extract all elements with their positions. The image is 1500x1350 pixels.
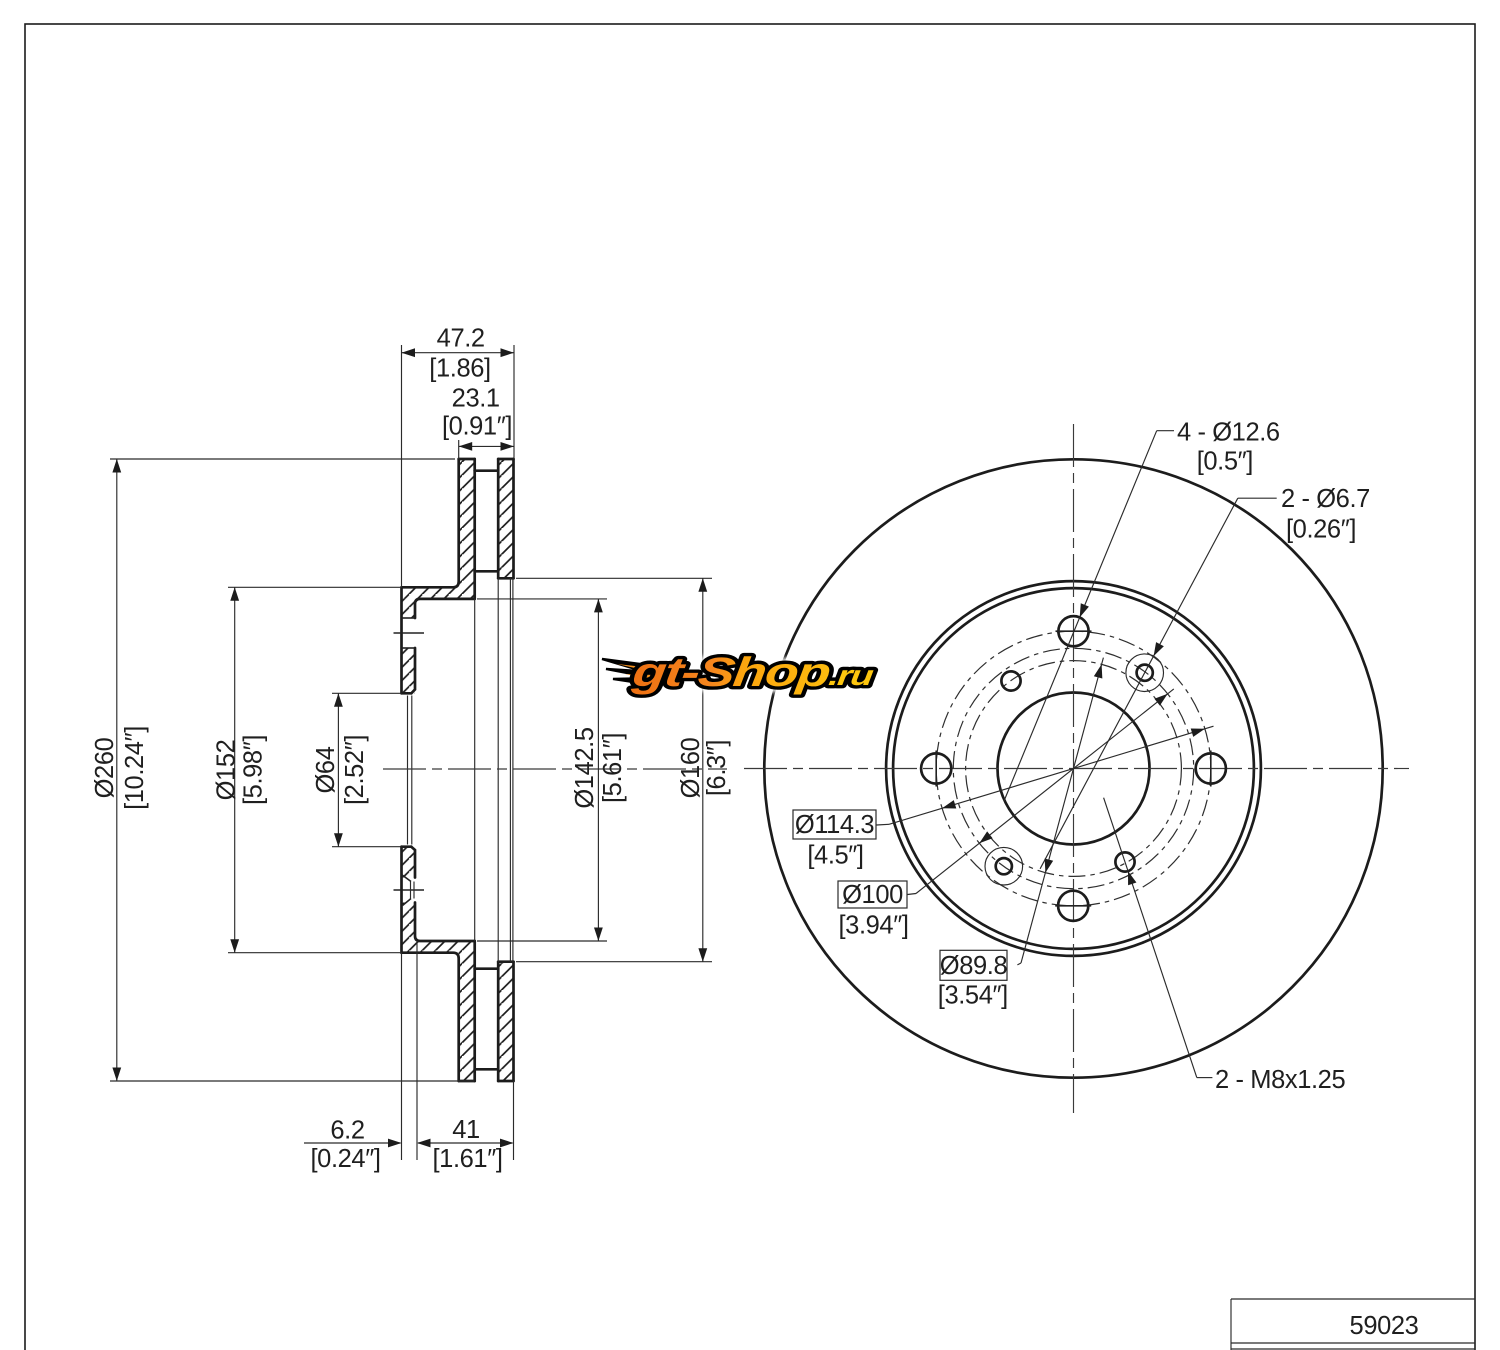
mounting face (bottom) — [400, 847, 403, 953]
hatched section: left friction plate + hat ring (bottom) — [402, 941, 475, 1081]
bore top edge — [402, 692, 412, 695]
M8x1.25 threaded hole #2 — [1115, 852, 1134, 871]
outer circle Ø260 — [764, 459, 1382, 1077]
vertical centerline — [1073, 424, 1075, 1113]
svg-text:Ø89.8: Ø89.8 — [940, 952, 1008, 980]
hatched section: left friction plate + hat ring (top) — [402, 459, 475, 599]
label 4 - Ø12.6 with leader through top bolt hole — [1004, 419, 1280, 801]
svg-text:59023: 59023 — [1350, 1312, 1419, 1340]
hatched section: right friction plate (top) — [498, 459, 513, 578]
right plate faces (bottom) — [497, 962, 500, 1081]
left view: vented brake disc cross-section — [383, 459, 727, 1081]
svg-text:2 - M8x1.25: 2 - M8x1.25 — [1215, 1066, 1345, 1094]
right plate bottom edge (top half, Ø160) — [498, 577, 513, 580]
svg-text:Ø152: Ø152 — [213, 740, 241, 801]
hat bottom face — [402, 953, 459, 1081]
hat flange double circle — [886, 581, 1261, 956]
profile outline: right plate faces (top) — [497, 459, 500, 578]
svg-text:[0.5″]: [0.5″] — [1197, 448, 1253, 476]
svg-text:[1.61″]: [1.61″] — [432, 1145, 502, 1173]
svg-text:[6.3″]: [6.3″] — [703, 740, 731, 796]
bolt circle Ø114.3 (dash-dot) — [936, 631, 1211, 906]
centerline of left view — [383, 768, 727, 770]
label 2 - M8x1.25 with leader to threaded hole — [1104, 798, 1346, 1094]
dimension Ø260 / [10.24"] outer diameter — [91, 459, 474, 1081]
bolt hole Ø12.6 #2 — [1196, 753, 1226, 783]
svg-text:[1.86]: [1.86] — [429, 355, 490, 383]
bolt hole Ø12.6 #1 — [1058, 616, 1088, 646]
gt-shop.ru watermark logo — [602, 650, 876, 696]
svg-text:Ø114.3: Ø114.3 — [795, 811, 875, 839]
profile outline: left plate top edge — [459, 458, 475, 461]
crown inner face below bolt hole — [411, 648, 415, 693]
crown inner face above M8 hole — [411, 847, 415, 878]
svg-text:23.1: 23.1 — [452, 385, 500, 413]
circle Ø100 (dash-dot) — [953, 648, 1193, 888]
hatched section: right friction plate (bottom) — [498, 962, 513, 1081]
svg-text:[0.91″]: [0.91″] — [442, 413, 512, 441]
horizontal centerline — [744, 768, 1409, 770]
svg-text:4 - Ø12.6: 4 - Ø12.6 — [1177, 419, 1280, 447]
dimension 47.2 / [1.86] overall width — [402, 325, 515, 588]
vane edge at vent bottom (bottom half) — [475, 967, 499, 970]
profile outline: left plate outer face + fillet + hat top face — [402, 459, 459, 587]
dimension Ø160 / [6.3"] vent inner dia — [516, 578, 731, 961]
svg-text:41: 41 — [452, 1116, 480, 1144]
svg-text:[5.98″]: [5.98″] — [240, 735, 268, 805]
right view: brake disc front view — [744, 424, 1409, 1113]
left plate bottom edge — [459, 1080, 475, 1083]
M8 circle tick on crown (bottom) — [394, 889, 425, 891]
svg-text:[5.61″]: [5.61″] — [599, 733, 627, 803]
svg-text:Ø260: Ø260 — [91, 737, 119, 798]
hatched section: hat crown above bolt hole — [402, 599, 416, 618]
vane edge top — [475, 469, 499, 472]
crown inner face below M8 hole + fillet to bottom ring — [415, 903, 475, 942]
vane edge at vent bottom (top half) — [475, 570, 499, 573]
left plate inner face (bottom) — [473, 941, 476, 1081]
svg-text:[3.54″]: [3.54″] — [938, 981, 1008, 1009]
center bore circle Ø64 — [998, 693, 1150, 845]
svg-text:[10.24″]: [10.24″] — [121, 726, 149, 810]
dimension Ø142.5 / [5.61"] friction inner dia — [477, 599, 627, 941]
dimension 41 / [1.61"] hat depth — [417, 1081, 514, 1173]
right plate bottom edge — [498, 1080, 513, 1083]
dimension Ø152 / [5.98"] hat diameter — [213, 587, 402, 952]
bolt circle tick on crown (top) — [394, 632, 425, 634]
svg-text:2 - Ø6.7: 2 - Ø6.7 — [1281, 485, 1370, 513]
svg-text:Ø100: Ø100 — [842, 881, 903, 909]
svg-text:Ø64: Ø64 — [312, 746, 340, 793]
svg-text:[0.24″]: [0.24″] — [310, 1145, 380, 1173]
hatched section: hat crown below bore — [402, 847, 416, 878]
hatched section: hat crown above bottom ring — [402, 903, 416, 942]
profile outline: right plate top edge — [498, 458, 513, 461]
Ø6.7 pin hole with counterbore #1 — [1126, 654, 1164, 692]
svg-text:Ø160: Ø160 — [677, 737, 705, 798]
bore bottom edge — [402, 845, 412, 848]
svg-text:[0.26″]: [0.26″] — [1286, 516, 1356, 544]
M8 hole chamfer edges in crown — [402, 875, 412, 882]
bore chamfer silhouette lines — [407, 696, 409, 845]
right plate top edge (bottom half, Ø160) — [498, 960, 513, 963]
dimension 23.1 / [0.91"] rotor thickness — [442, 385, 514, 459]
title block — [1231, 1298, 1475, 1300]
boxed label &#216;89.8 with diameter line — [1017, 963, 1021, 965]
M8x1.25 threaded hole #1 — [1001, 671, 1020, 690]
speed lines — [602, 659, 659, 684]
svg-text:[4.5″]: [4.5″] — [807, 842, 863, 870]
label 2 - Ø6.7 with leader through pin hole — [1040, 485, 1370, 869]
hatched section: hat crown below bolt hole — [402, 648, 416, 693]
bolt hole edges in crown (top) — [402, 617, 416, 619]
bolt hole Ø12.6 #3 — [1058, 891, 1088, 921]
hat ring inner surface (top, Ø142.5) — [415, 599, 475, 618]
vane edge bottom — [475, 1068, 499, 1071]
svg-text:6.2: 6.2 — [330, 1117, 364, 1145]
profile outline: left plate inner face (top) — [473, 459, 476, 599]
bolt hole Ø12.6 #4 — [921, 753, 951, 783]
leader stub from Ø114.3 box — [838, 689, 1174, 940]
Ø6.7 pin hole with counterbore #2 — [985, 847, 1023, 885]
mounting face (top) — [400, 587, 403, 693]
svg-text:[2.52″]: [2.52″] — [341, 735, 369, 805]
svg-text:47.2: 47.2 — [437, 325, 485, 353]
svg-text:[3.94″]: [3.94″] — [838, 912, 908, 940]
circle Ø89.8 (dash-dot) — [966, 661, 1182, 877]
boxed label &#216;100 with diameter line — [908, 894, 917, 895]
svg-text:Ø142.5: Ø142.5 — [571, 727, 599, 808]
boxed label &#216;114.3 with diameter line — [877, 823, 890, 826]
cavity silhouette thin lines — [474, 599, 476, 941]
dimension 6.2 / [0.24"] crown thickness — [304, 941, 417, 1173]
dimension Ø64 / [2.52"] center bore — [312, 693, 401, 846]
